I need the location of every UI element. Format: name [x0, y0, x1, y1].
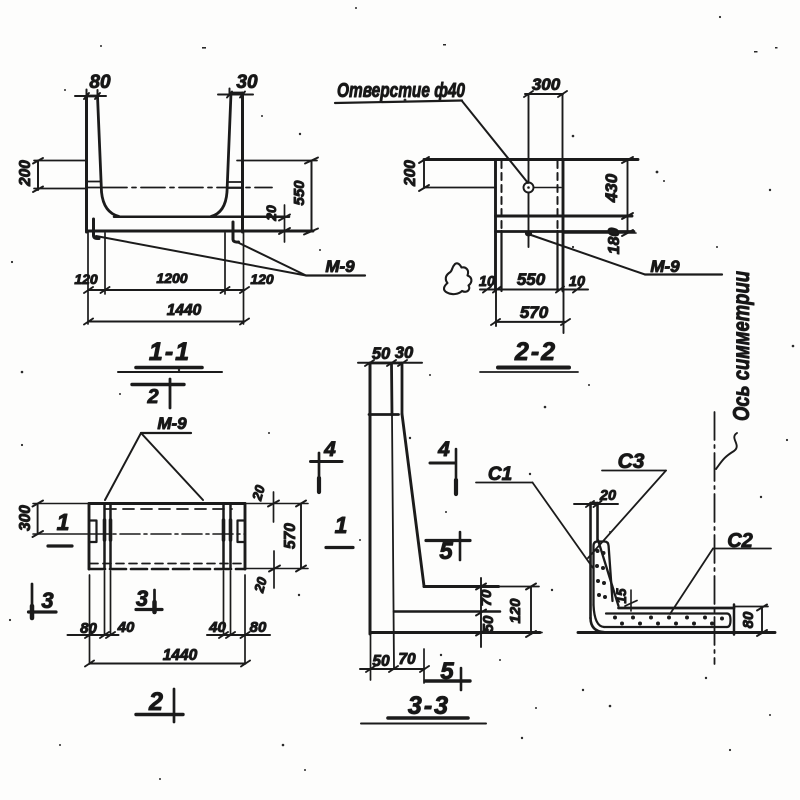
dim 120 ticks [526, 584, 536, 638]
dim 20 ticks [279, 215, 290, 235]
dim 1440 line [89, 321, 245, 323]
svg-text:2-2: 2-2 [514, 338, 557, 366]
label 1-1 underline thick [136, 366, 202, 370]
dim row ticks [84, 287, 249, 293]
dim 430 ticks [622, 157, 633, 219]
view mark 1 left underline [48, 544, 72, 547]
svg-text:10: 10 [479, 274, 495, 290]
svg-text:4: 4 [323, 438, 336, 461]
dim row ticks [483, 287, 581, 293]
dim 50/30 top ticks [365, 360, 407, 366]
box left edge and leg [494, 160, 497, 292]
dim 570 extension lines [245, 504, 308, 569]
svg-text:40: 40 [208, 619, 226, 636]
left leg top cap [87, 95, 98, 98]
rebar dots vertical run [595, 549, 607, 599]
M-9 underline [306, 274, 365, 276]
svg-text:50: 50 [372, 653, 390, 670]
C3 leader horizontal [602, 470, 666, 472]
label 1-1 underline thin [118, 371, 222, 373]
dim 120 extension bottom [498, 632, 542, 634]
svg-text:1: 1 [335, 512, 348, 538]
left leg outer face [85, 96, 88, 232]
left leg line b [109, 504, 112, 570]
svg-text:3: 3 [136, 586, 148, 611]
dim 15 tick [625, 601, 637, 607]
cut mark 5 top arrow [459, 532, 462, 560]
cut mark 4 right bar [430, 462, 455, 465]
C1 leader horizontal [476, 482, 533, 484]
svg-text:20: 20 [249, 483, 268, 503]
svg-text:50: 50 [372, 345, 391, 363]
dim 550 extension line [237, 160, 317, 162]
cut mark 4 left arrowhead [317, 478, 321, 492]
dim 200 ticks [419, 157, 429, 191]
svg-text:70: 70 [398, 651, 416, 668]
svg-text:30: 30 [236, 72, 258, 93]
svg-text:80: 80 [80, 620, 97, 637]
svg-text:2: 2 [146, 386, 158, 408]
M-9 underline [645, 273, 722, 275]
dim 570 ticks [491, 319, 570, 325]
dim 80 line right [761, 608, 763, 634]
right inner hidden line dashed [557, 161, 559, 231]
C3 leader diagonal [588, 471, 666, 559]
lower flange bottom edge [496, 230, 635, 233]
right leg top cap [231, 92, 243, 95]
centreline left extension [424, 187, 496, 189]
plan hidden line dashed [90, 563, 245, 565]
dim 20 top right [273, 492, 275, 522]
box bottom edge [496, 215, 633, 218]
label 2-2 underline thick [498, 366, 569, 370]
dim row 80/40 left line [68, 634, 119, 636]
cut mark 2 arrow [169, 379, 172, 408]
dim 1440 ticks [84, 319, 249, 325]
right leg line a [222, 504, 225, 570]
right leg inner face [211, 93, 231, 217]
stirrup wall run [594, 542, 613, 606]
svg-text:50: 50 [480, 615, 497, 632]
M-9 leader to left leg [105, 433, 141, 500]
cut mark 3 mid bar [136, 608, 162, 611]
svg-text:3-3: 3-3 [408, 692, 450, 720]
cut mark 2 bar [132, 383, 184, 386]
hole leader line [462, 101, 528, 183]
bottom edge [370, 631, 540, 634]
ink blot outline [444, 263, 471, 294]
dim 50/30 top line [358, 362, 422, 364]
svg-text:120: 120 [74, 271, 98, 287]
dim 300 line [37, 504, 39, 535]
M-9 leader to right leg [141, 433, 203, 500]
right anchor thick segment [224, 520, 231, 540]
svg-text:570: 570 [520, 303, 549, 322]
svg-text:430: 430 [602, 173, 621, 203]
dim 570 ticks [296, 501, 306, 572]
svg-text:М-9: М-9 [325, 257, 355, 276]
svg-text:80: 80 [89, 72, 111, 93]
dim row 120/1200/120 line [89, 289, 245, 291]
leader M-9 left [96, 236, 306, 276]
cut mark 4 left arrow [318, 453, 321, 492]
cut mark 3 mid arrowhead [152, 602, 157, 612]
view mark 1 right underline [326, 546, 353, 549]
wall top cap [591, 502, 598, 504]
dim 50/70 bottom line [360, 668, 425, 670]
dim 200 ticks [33, 158, 43, 192]
dim 550 ticks [304, 158, 318, 235]
wall inner face [596, 503, 599, 540]
svg-text:120: 120 [507, 598, 524, 624]
dim 300 ticks [524, 91, 567, 97]
svg-text:3: 3 [41, 588, 53, 613]
view label 2 bar [136, 713, 183, 716]
left inner line solid below [500, 231, 502, 291]
wall outer face [369, 363, 372, 634]
svg-text:550: 550 [291, 180, 308, 206]
svg-text:550: 550 [517, 270, 546, 289]
svg-text:80: 80 [740, 611, 757, 628]
dim 20 bottom right [273, 551, 275, 588]
symmetry axis dash-dot line [714, 412, 716, 664]
cut mark 4 right arrow [455, 449, 458, 494]
stirrup base end cap [727, 614, 731, 628]
svg-text:20: 20 [263, 205, 279, 222]
leader M-9 right [238, 243, 306, 276]
hole centre vertical line [528, 94, 530, 247]
middle vertical extension [392, 415, 394, 669]
rebar dots horizontal run [613, 616, 724, 626]
right leg outer face [241, 93, 244, 232]
step line [369, 413, 399, 416]
svg-text:1200: 1200 [156, 270, 187, 286]
bottom extension lines [88, 232, 244, 324]
plan rectangle right edge [244, 504, 247, 570]
svg-text:20: 20 [251, 575, 270, 595]
dim row 10/550/10 line [480, 289, 588, 291]
cut mark 3 left arrow [31, 584, 34, 618]
slab top extension [734, 606, 768, 608]
label 3-3 underline thin [361, 723, 486, 725]
label 3-3 underline thick [388, 716, 468, 720]
dim 80 ticks [84, 93, 100, 99]
right anchor bracket M-9 [238, 521, 245, 543]
dim 120 line [530, 587, 532, 635]
right inner line solid below [556, 231, 558, 291]
stirrup base top line [606, 612, 727, 614]
cut mark 5 bottom arrow [460, 668, 463, 690]
cut mark 4 left bar [311, 460, 343, 463]
wall outer face [589, 503, 592, 618]
svg-text:М-9: М-9 [650, 257, 680, 276]
view label 2 arrow [173, 689, 176, 722]
left anchor thick segment [105, 520, 111, 540]
svg-text:70: 70 [478, 589, 495, 606]
right leg hatch marks [229, 182, 243, 188]
svg-text:300: 300 [532, 75, 561, 94]
dim 50/70 bottom ticks [366, 666, 429, 672]
dim 570 line [300, 504, 302, 569]
C2 leader diagonal [670, 549, 713, 615]
svg-text:М-9: М-9 [157, 414, 187, 433]
dim 20 line [574, 503, 618, 505]
svg-text:180: 180 [606, 228, 623, 255]
dim 15 line [630, 590, 632, 611]
plan centre dash-dot line [89, 533, 245, 535]
left leg line a [103, 504, 106, 570]
cut mark 5 top bar [426, 539, 470, 542]
svg-text:120: 120 [250, 271, 274, 287]
svg-text:80: 80 [250, 619, 267, 636]
middle vertical line [390, 364, 393, 416]
extension legs below [496, 291, 564, 333]
slab top edge [619, 607, 735, 610]
dim 180 extension [563, 232, 636, 234]
dim 430 line [627, 160, 629, 216]
svg-text:1440: 1440 [167, 302, 202, 319]
svg-text:15: 15 [614, 588, 629, 604]
dim 570 line [495, 321, 565, 323]
svg-text:1: 1 [57, 509, 70, 535]
M-9 leader [531, 235, 645, 275]
anchor dot M-9 [525, 231, 532, 237]
dim 180 tick bottom [622, 230, 633, 236]
dim row ticks [85, 632, 250, 638]
C2 leader horizontal [713, 548, 771, 550]
left inner hidden line dashed [501, 161, 503, 231]
note underline [335, 101, 462, 104]
C1 leader diagonal [533, 483, 594, 569]
dim 30 ticks [227, 92, 245, 98]
box top edge [424, 158, 638, 161]
mid horizontal line [394, 610, 500, 613]
horizontal dash-dot centreline [103, 187, 272, 189]
slab top edge [114, 216, 289, 219]
svg-text:300: 300 [17, 505, 34, 531]
bottom extension lines [90, 571, 246, 664]
dim 300 ticks [33, 501, 44, 538]
box right edge and leg [562, 160, 565, 292]
svg-text:20: 20 [599, 488, 616, 504]
stirrup base bottom line [604, 626, 727, 628]
svg-text:30: 30 [395, 344, 414, 362]
hole centre dot [527, 186, 530, 189]
dim 70/50 ticks [476, 584, 486, 636]
svg-text:200: 200 [402, 160, 419, 187]
dim 80 line [75, 90, 106, 97]
wall inner sloped face [598, 540, 619, 606]
svg-text:5: 5 [439, 538, 453, 565]
inner sloped face [402, 414, 424, 586]
wall inner face top [401, 363, 404, 414]
cut mark 4 right arrowhead [454, 480, 458, 494]
dim 80 ticks [757, 605, 767, 637]
plan rectangle top edge [89, 502, 245, 505]
centreline dash right of hole [534, 187, 561, 189]
svg-text:1-1: 1-1 [149, 338, 191, 366]
slab end face [733, 605, 736, 635]
300-dim right extension [562, 94, 564, 160]
cut mark 3 mid arrow [153, 590, 156, 612]
left leg hatch marks [88, 182, 102, 188]
dim 300 line [525, 93, 563, 95]
cut mark 3 left bar [29, 610, 57, 613]
cut mark 3 left arrowhead [30, 606, 35, 618]
dim 20 ticks [586, 501, 602, 507]
dim 300 extension lines [33, 504, 89, 535]
svg-text:4: 4 [437, 438, 450, 461]
slab top extension [499, 586, 540, 588]
dim 30 line [218, 89, 253, 95]
dim 180 line [627, 216, 629, 233]
slab bottom edge [87, 230, 313, 233]
axis squiggle [716, 433, 737, 469]
slab bottom edge [578, 631, 775, 634]
svg-text:Ось симметрии: Ось симметрии [728, 271, 754, 421]
dim 70 line right [480, 578, 482, 647]
plan rectangle left edge [88, 504, 91, 570]
svg-text:10: 10 [569, 274, 585, 290]
dim 20 top tick [268, 501, 279, 507]
right leg line b [229, 504, 232, 570]
anchor hook right (M-9) [233, 222, 239, 242]
left leg inner face [98, 96, 120, 217]
left anchor bracket M-9 [90, 521, 97, 543]
dim 200 line [37, 161, 39, 191]
corner fillet outer [591, 618, 605, 632]
svg-text:40: 40 [117, 619, 135, 636]
dim 1440 line [90, 663, 246, 665]
label 2-2 underline thin [480, 371, 578, 373]
plan rectangle bottom edge dashed [89, 568, 245, 571]
anchor hook left (M-9) [94, 219, 100, 239]
top hidden dashed line [105, 508, 232, 510]
dim 200 line [423, 160, 425, 188]
bottom extensions [371, 634, 425, 683]
dim 20 bottom tick [269, 566, 280, 572]
dim 20 line right [284, 205, 286, 242]
dim 1440 ticks [85, 661, 250, 667]
M-9 underline plan [141, 432, 191, 434]
svg-text:200: 200 [17, 160, 34, 187]
dim 550 line [311, 161, 313, 232]
cut mark 5 bottom bar [425, 679, 470, 682]
slab top edge [424, 585, 499, 588]
dim row 40/80 right line [207, 634, 270, 636]
wall top cap [370, 362, 402, 365]
svg-text:570: 570 [282, 523, 299, 549]
svg-text:Отверстие ф40: Отверстие ф40 [337, 80, 465, 102]
svg-text:1440: 1440 [163, 647, 198, 664]
svg-text:С3: С3 [618, 450, 645, 473]
stirrup corner curve [594, 605, 605, 627]
dim 200 extension lines [34, 161, 87, 189]
hole circle [524, 183, 534, 193]
svg-text:2: 2 [148, 688, 163, 716]
